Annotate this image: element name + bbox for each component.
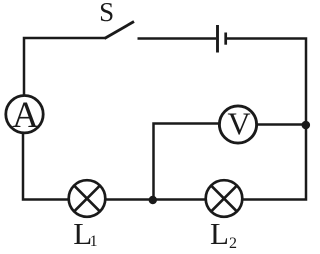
junction node on bottom wire [149, 196, 157, 204]
lamp L2 circle [206, 180, 243, 217]
svg-text:V: V [227, 106, 250, 142]
wire battery to top-right corner and down right side to bottom-right corner [227, 39, 306, 200]
wire voltmeter right to right-side node [257, 123, 307, 126]
svg-text:1: 1 [90, 233, 98, 250]
battery short plate (negative) [224, 33, 227, 45]
wire switch to battery [138, 37, 217, 40]
voltmeter V1 circle [219, 106, 256, 143]
wire between lamps L2 and L1 [107, 198, 206, 201]
battery long plate (positive) [216, 25, 219, 53]
wire lamp L1 to bottom-left corner and up to ammeter [23, 133, 68, 200]
ammeter A1 circle [6, 96, 43, 133]
lamp L1 cross [74, 186, 100, 212]
lamp L2 cross [211, 186, 237, 212]
svg-text:L: L [210, 216, 229, 251]
switch S blade [105, 22, 135, 39]
lamp L1 circle [69, 180, 106, 217]
svg-text:A: A [12, 95, 39, 136]
svg-text:2: 2 [229, 235, 237, 252]
svg-text:S: S [99, 0, 114, 27]
junction node on right wire [302, 121, 311, 130]
wire top-left: from switch left contact to top-left corner and down to ammeter [24, 38, 105, 95]
wire voltmeter left to middle node [154, 124, 220, 201]
